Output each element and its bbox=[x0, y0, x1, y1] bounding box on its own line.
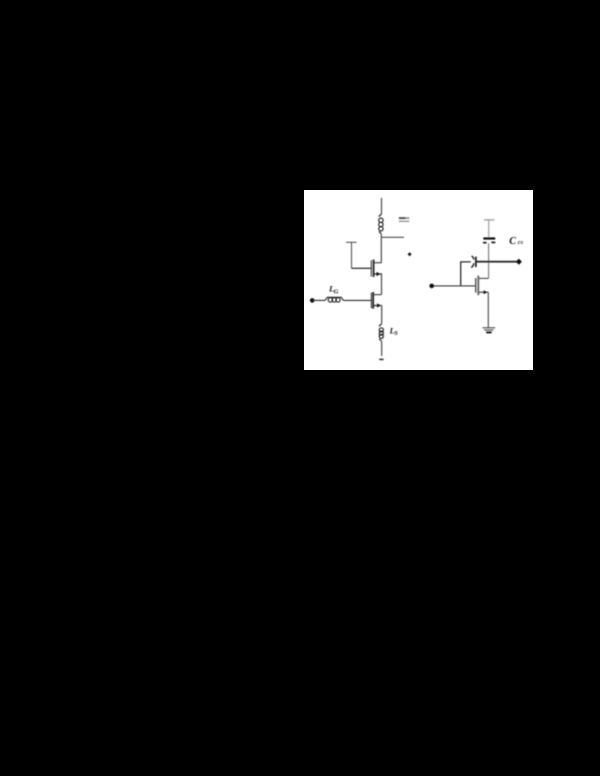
wire: horizontal stub right of drain node bbox=[381, 236, 404, 238]
label Ls bbox=[389, 325, 399, 337]
wire: M2 source to M1 drain bbox=[381, 274, 383, 295]
feedback capacitor (curved plate + bar) bbox=[471, 256, 476, 268]
supply T bar (right circuit, faded) bbox=[484, 219, 494, 221]
wire: gate lead of M3 bbox=[432, 285, 476, 287]
capacitor Cex bbox=[483, 239, 495, 243]
wire: Ls to bottom terminal bbox=[381, 342, 383, 357]
wire: M3 source to ground bbox=[487, 292, 489, 327]
svg-text:S: S bbox=[394, 330, 398, 337]
wire: T bar to Cex (faded) bbox=[488, 220, 490, 238]
wire: Cex bottom to drain node (grey vertical) bbox=[488, 243, 490, 278]
wire: Lg to M1 gate bbox=[343, 299, 371, 301]
wire: M1 source down to Ls bbox=[381, 306, 383, 324]
input terminal dot bbox=[310, 298, 315, 303]
wire: input dot to Lg bbox=[312, 299, 325, 301]
label Lg bbox=[328, 283, 339, 295]
svg-text:ex: ex bbox=[518, 239, 524, 246]
wire: VDD lead above drain inductor bbox=[381, 198, 383, 214]
node A (diamond between circuits) bbox=[408, 252, 412, 256]
bias tap (T bar) for M2 gate bbox=[346, 242, 357, 268]
ground bbox=[483, 328, 496, 333]
transistor M2 (cascode NMOS) bbox=[371, 260, 382, 278]
wire: Ld bottom to drain node of M2 bbox=[380, 234, 382, 263]
input terminal dot (right circuit) bbox=[429, 284, 434, 289]
inductor Lg (gate coil, horizontal) bbox=[325, 297, 343, 302]
inductor Ld (drain coil) bbox=[379, 214, 383, 234]
label Cex bbox=[509, 236, 523, 247]
svg-text:C: C bbox=[509, 236, 516, 247]
transistor M3 (NMOS, right circuit) bbox=[476, 276, 489, 296]
inductor Ls (source coil) bbox=[379, 324, 384, 342]
wire: feedback cap to gate (left + down) bbox=[461, 262, 471, 286]
output terminal diamond bbox=[516, 259, 522, 265]
label "=" near Ld bbox=[399, 217, 410, 222]
svg-text:G: G bbox=[334, 288, 339, 295]
transistor M1 (input NMOS) bbox=[371, 292, 381, 309]
bottom terminal bar bbox=[379, 358, 383, 360]
wire: gate lead of M2 bbox=[352, 267, 372, 269]
wire: output line (thick) bbox=[477, 261, 519, 263]
